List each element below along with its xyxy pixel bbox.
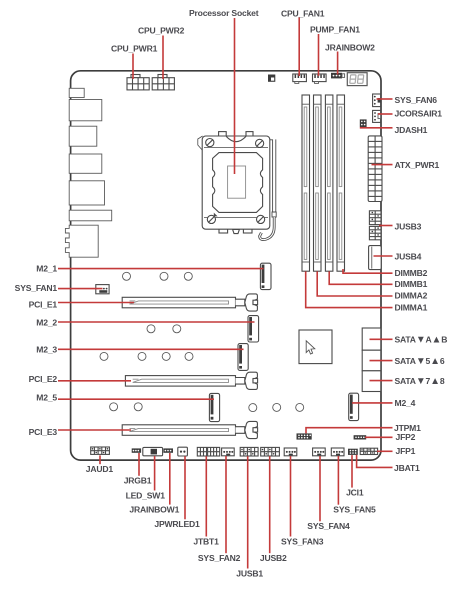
CPU socket inner cover	[213, 153, 263, 213]
svg-text:M2_3: M2_3	[36, 345, 57, 355]
SATA ports 7-8	[362, 371, 381, 392]
leader line JTBT1	[205, 456, 207, 536]
svg-text:SYS_FAN3: SYS_FAN3	[281, 536, 324, 546]
mounting holes row 2	[147, 325, 181, 333]
leader line JPWRLED1	[184, 456, 186, 519]
connector CPU_PWR2	[152, 75, 174, 90]
connector JUSB3 lower	[369, 226, 381, 239]
svg-text:CPU_PWR2: CPU_PWR2	[138, 25, 185, 35]
connector CPU_PWR1	[127, 75, 149, 90]
connector JUSB3 upper	[369, 211, 381, 225]
M.2 slot M2_1	[260, 263, 271, 289]
svg-text:M2_2: M2_2	[36, 317, 57, 327]
leader line JFP1	[377, 450, 393, 452]
mounting holes row 4	[110, 403, 304, 412]
leader line JRAINBOW2	[337, 52, 339, 75]
connector PUMP_FAN1	[313, 74, 327, 83]
leader line PCI_E2	[58, 380, 131, 382]
connector SYS_FAN4	[313, 448, 326, 456]
I/O port block USB2	[69, 154, 102, 173]
leader line M2_3	[58, 348, 244, 350]
leader line SYS_FAN6	[377, 98, 393, 100]
PCIe slot PCI_E2	[125, 372, 257, 389]
leader line SYS_FAN2	[225, 456, 227, 553]
svg-text:SATA▼5▲6: SATA▼5▲6	[395, 356, 445, 367]
leader line Processor Socket	[234, 18, 236, 174]
DIMM slot DIMMA1	[302, 95, 310, 271]
svg-text:JFP2: JFP2	[396, 432, 416, 442]
leader line JUSB4	[374, 255, 393, 257]
leader line JUSB2	[269, 456, 271, 553]
leader line JDASH1	[360, 127, 393, 129]
DIMM slot DIMMB2	[337, 95, 345, 271]
I/O audio jack block	[65, 225, 98, 257]
svg-text:CPU_FAN1: CPU_FAN1	[281, 8, 325, 18]
chipset block	[299, 330, 332, 364]
leader line M2_1	[58, 268, 264, 270]
svg-text:M2_5: M2_5	[36, 393, 57, 403]
leader line DIMMA1	[306, 271, 393, 307]
connector JUSB1	[240, 447, 258, 456]
leader line SYS_FAN1	[58, 288, 103, 290]
connector JRAINBOW2	[331, 73, 345, 79]
connector SYS_FAN3	[284, 448, 297, 456]
leader line JRAINBOW1	[169, 453, 171, 505]
connector SYS_FAN1	[96, 285, 109, 294]
socket lever bracket	[260, 139, 277, 239]
svg-text:JDASH1: JDASH1	[395, 125, 428, 135]
DIMM slot DIMMA2	[314, 95, 322, 271]
svg-text:PCI_E1: PCI_E1	[29, 299, 58, 309]
svg-text:JBAT1: JBAT1	[394, 463, 420, 473]
svg-text:PCI_E2: PCI_E2	[29, 374, 58, 384]
leader line M2_5	[58, 398, 214, 400]
svg-text:DIMMA1: DIMMA1	[395, 303, 428, 313]
leader line JRGB1	[138, 453, 140, 476]
leader line SYS_FAN3	[290, 456, 292, 537]
svg-text:SYS_FAN2: SYS_FAN2	[198, 553, 241, 563]
svg-text:PUMP_FAN1: PUMP_FAN1	[310, 24, 360, 34]
connector JDASH1	[360, 119, 367, 127]
svg-text:JUSB3: JUSB3	[395, 222, 422, 232]
switch LED_SW1	[143, 447, 163, 455]
CPU socket outer frame	[198, 132, 270, 234]
leader line SYS_FAN4	[319, 456, 321, 521]
connector JCI1 and JBAT1 jumper	[348, 449, 358, 455]
small component near top	[268, 75, 275, 82]
svg-text:SYS_FAN1: SYS_FAN1	[15, 283, 58, 293]
leader line SYS_FAN5	[337, 456, 339, 505]
svg-text:JRGB1: JRGB1	[124, 476, 152, 486]
motherboard outline	[71, 71, 381, 460]
leader line SATA A-B	[370, 338, 393, 340]
I/O port block video	[69, 210, 112, 221]
M.2 slot M2_5	[209, 393, 219, 421]
connector JTPM1	[297, 433, 312, 439]
leader line PUMP_FAN1	[318, 34, 320, 76]
connector JRAINBOW1	[163, 448, 173, 452]
svg-text:JPWRLED1: JPWRLED1	[154, 519, 200, 529]
mounting holes row 1	[123, 272, 193, 280]
DIMM slot DIMMB1	[325, 95, 333, 271]
connector JCORSAIR1	[373, 110, 381, 122]
leader line DIMMA2	[317, 271, 392, 296]
svg-text:SYS_FAN4: SYS_FAN4	[307, 521, 350, 531]
leader line JUSB3	[379, 225, 393, 227]
svg-text:DIMMB2: DIMMB2	[395, 268, 428, 278]
connector JPWRLED1	[178, 447, 188, 456]
leader line SATA 5-6	[370, 360, 393, 362]
svg-text:PCI_E3: PCI_E3	[29, 427, 58, 437]
connector SYS_FAN2	[222, 448, 235, 456]
svg-text:CPU_PWR1: CPU_PWR1	[111, 43, 158, 53]
svg-text:JFP1: JFP1	[396, 446, 416, 456]
connector JFP1	[360, 448, 377, 454]
leader line SATA 7-8	[370, 380, 393, 382]
connector JUSB4	[369, 246, 382, 270]
leader line CPU_FAN1	[298, 18, 300, 77]
connector JAUD1	[91, 447, 110, 454]
I/O port block USB1	[69, 126, 97, 146]
connector SYS_FAN5	[331, 448, 344, 456]
leader line CPU_PWR1	[132, 54, 134, 80]
debug LED display 88	[347, 73, 367, 86]
connector SYS_FAN6	[373, 94, 381, 107]
connector JUSB2	[261, 447, 280, 456]
leader line PCI_E3	[58, 429, 131, 431]
PCIe slot PCI_E3	[122, 421, 257, 438]
svg-text:JUSB1: JUSB1	[236, 568, 263, 578]
svg-text:DIMMA2: DIMMA2	[395, 291, 428, 301]
leader line M2_4	[352, 402, 393, 404]
I/O port block LAN1	[69, 100, 102, 121]
svg-text:JCORSAIR1: JCORSAIR1	[395, 109, 443, 119]
CPU die area	[228, 166, 246, 198]
svg-text:JAUD1: JAUD1	[86, 464, 114, 474]
svg-text:SYS_FAN6: SYS_FAN6	[395, 95, 438, 105]
connector JFP2	[354, 435, 367, 439]
leader line JBAT1	[357, 455, 393, 468]
svg-text:SATA▼7▲8: SATA▼7▲8	[395, 376, 445, 387]
leader line JTPM1	[306, 428, 393, 434]
I/O port block small top	[69, 88, 84, 97]
leader line CPU_PWR2	[162, 36, 164, 80]
svg-text:LED_SW1: LED_SW1	[126, 490, 166, 500]
svg-text:SATA▼A▲B: SATA▼A▲B	[395, 335, 448, 346]
svg-text:ATX_PWR1: ATX_PWR1	[395, 160, 440, 170]
svg-text:JCI1: JCI1	[346, 487, 364, 497]
connector JTBT1	[197, 447, 219, 456]
connector JRGB1	[132, 448, 141, 452]
SATA ports A-B	[362, 328, 381, 350]
pin1 marker	[214, 213, 218, 217]
leader line JFP2	[365, 436, 393, 438]
SATA ports 5-6	[362, 350, 381, 371]
svg-text:M2_1: M2_1	[36, 263, 57, 273]
leader line DIMMB1	[329, 271, 392, 284]
svg-text:Processor Socket: Processor Socket	[189, 8, 259, 18]
connector ATX_PWR1 24-pin	[368, 136, 382, 202]
svg-text:JRAINBOW1: JRAINBOW1	[129, 504, 179, 514]
M.2 slot M2_4	[349, 393, 359, 420]
svg-text:SYS_FAN5: SYS_FAN5	[333, 505, 376, 515]
CPU socket corner screws	[206, 139, 265, 224]
M.2 slot M2_3	[238, 344, 248, 371]
PCIe slot PCI_E1	[122, 294, 257, 311]
leader line JCI1	[351, 455, 353, 488]
svg-text:JTBT1: JTBT1	[193, 536, 219, 546]
leader line M2_2	[58, 321, 255, 323]
leader line JAUD1	[99, 455, 101, 464]
leader line LED_SW1	[154, 456, 156, 491]
svg-text:M2_4: M2_4	[395, 398, 416, 408]
leader line JUSB1	[247, 456, 249, 568]
I/O port block USB3	[69, 181, 104, 205]
M.2 slot M2_2	[248, 316, 259, 342]
connector CPU_FAN1	[293, 74, 307, 83]
leader line DIMMB2	[343, 269, 393, 273]
svg-text:JUSB4: JUSB4	[395, 251, 422, 261]
svg-text:JUSB2: JUSB2	[260, 553, 287, 563]
leader line PCI_E1	[58, 302, 134, 304]
mounting holes row 3	[100, 352, 193, 360]
svg-text:DIMMB1: DIMMB1	[395, 279, 428, 289]
leader line JCORSAIR1	[378, 113, 393, 115]
leader line ATX_PWR1	[372, 164, 393, 166]
svg-text:JRAINBOW2: JRAINBOW2	[325, 42, 375, 52]
